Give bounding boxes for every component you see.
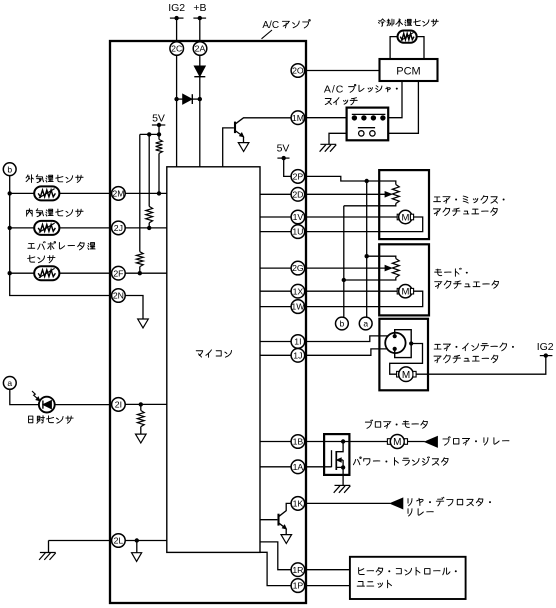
label maikon (microcomputer) xyxy=(196,351,202,357)
wire a rail (pot high side) xyxy=(366,181,368,317)
svg-text:A/C: A/C xyxy=(262,20,279,31)
resistor R2 (pull-up to 2J line) xyxy=(146,206,153,222)
label TH2 xyxy=(27,209,33,216)
ground (pressure switch) xyxy=(320,143,336,145)
pin 2D xyxy=(291,188,305,202)
wire microcomputer to Q2 base xyxy=(260,519,277,521)
microcomputer U1 box xyxy=(167,167,260,553)
pin 2O xyxy=(291,64,305,78)
transistor Q1 (NPN) base bar xyxy=(234,122,236,134)
PCM box xyxy=(380,59,438,81)
wire M4 to blower relay xyxy=(408,441,425,443)
wire 1P to heater control unit xyxy=(305,585,350,587)
wire 2G to mode pot wiper arrow xyxy=(305,267,385,269)
wire Q1 emitter down xyxy=(243,137,245,143)
pin 1J xyxy=(291,349,305,363)
ground arrow below 2L node xyxy=(132,553,142,562)
pin 2A xyxy=(193,42,207,56)
pin 1W xyxy=(291,300,305,314)
wire 2N to ground arrow xyxy=(125,296,143,320)
ground (power transistor) xyxy=(335,484,351,486)
wire D2 anode junction xyxy=(177,98,183,100)
SW1 contact bar xyxy=(352,113,386,115)
SW1 lower contacts xyxy=(359,131,364,136)
wire M3 to IG2 xyxy=(416,356,546,375)
ground arrow below Q2 emitter xyxy=(281,535,292,544)
wire microcomputer to 1P xyxy=(260,552,291,585)
net 5V (left) terminal xyxy=(152,124,165,126)
wire drain node to blower motor xyxy=(343,441,387,443)
solar sensor photodiode body xyxy=(39,397,55,413)
wire 5V to resistor R1 xyxy=(158,125,160,139)
pin 2G xyxy=(291,261,305,275)
Q3 body arrow xyxy=(338,459,343,461)
wire R2 to 2J line xyxy=(148,223,150,228)
Q3 MOSFET channel bar xyxy=(335,451,337,470)
wire 2J to microcomputer xyxy=(125,227,167,229)
svg-text:M: M xyxy=(393,437,401,448)
mode motor M2 xyxy=(305,290,397,292)
svg-text:1J: 1J xyxy=(293,350,302,360)
svg-text:1M: 1M xyxy=(292,113,304,123)
svg-text:b: b xyxy=(7,164,12,174)
Q1 emitter with arrow xyxy=(236,131,244,137)
wire 2L node down xyxy=(136,541,138,553)
wire 1K to rear defroster relay xyxy=(305,502,390,504)
wire 1M to pressure switch xyxy=(305,117,347,119)
wire microcomputer to Q1 base xyxy=(223,128,234,167)
wire D2 cathode junction xyxy=(192,98,200,100)
pin 1A xyxy=(291,460,305,474)
intake motor M3 xyxy=(397,371,400,377)
svg-text:1B: 1B xyxy=(293,437,304,447)
wire microcomputer to 1R xyxy=(260,542,291,570)
SW1 blade xyxy=(358,127,375,129)
rear defroster relay arrow xyxy=(390,498,403,509)
diode D1 (series on +B line, cathode down) xyxy=(194,66,205,76)
wire mode pot bottom to b rail xyxy=(344,278,396,281)
svg-text:IG2: IG2 xyxy=(537,341,554,353)
Q2 collector xyxy=(279,503,291,516)
wire 2P to air mix pot xyxy=(305,176,396,184)
label air mix actuator xyxy=(434,197,441,202)
wire 1B to power transistor xyxy=(305,441,343,443)
wire microcomputer to 1W xyxy=(260,306,291,308)
svg-text:2M: 2M xyxy=(112,189,124,199)
svg-text:M: M xyxy=(402,370,410,381)
wire a rail to mode pot top xyxy=(367,256,396,258)
label blower motor xyxy=(365,420,372,428)
net +B terminal xyxy=(193,17,206,19)
wire M2 to 1W xyxy=(305,291,423,306)
pin 1M xyxy=(291,111,305,125)
power transistor Q3 box xyxy=(324,434,349,475)
svg-text:A/C: A/C xyxy=(324,84,345,96)
A/C amplifier enclosure box xyxy=(110,41,306,603)
svg-text:2F: 2F xyxy=(113,268,123,278)
Q3 source lead xyxy=(336,460,343,467)
wire 1R to heater control unit xyxy=(305,569,350,571)
solar sensor light arrow xyxy=(32,391,39,400)
wire branch to resistor R3 xyxy=(139,134,141,251)
blower motor M4 xyxy=(387,439,390,445)
label heater control unit xyxy=(359,568,365,575)
node a (mid) xyxy=(359,317,372,330)
diode D2 (between 2C and 2A lines, cathode right) xyxy=(183,94,192,104)
wire microcomputer to 1B xyxy=(260,441,291,443)
wire b bus down to 2N xyxy=(10,176,112,296)
wire 5V branch rail xyxy=(140,133,159,135)
air intake actuator box xyxy=(379,319,428,391)
pin 2L xyxy=(112,534,126,548)
wire solar sensor to 2I xyxy=(55,404,112,406)
pin 2F xyxy=(112,266,126,280)
pin 1P xyxy=(291,579,305,593)
pin 2I xyxy=(112,398,126,412)
svg-text:1V: 1V xyxy=(293,212,304,222)
wire a to solar sensor xyxy=(10,389,39,404)
wire 2D to air mix pot wiper arrow xyxy=(305,193,385,195)
resistor R3 (pull-up to 2F line) xyxy=(136,252,143,267)
svg-text:2D: 2D xyxy=(292,189,303,199)
wire microcomputer to 1V xyxy=(260,216,291,218)
air mix motor M1 xyxy=(305,216,397,218)
wire Q2 emitter down xyxy=(285,529,287,535)
wire 1A to Q3 gate xyxy=(305,466,331,468)
label blower relay xyxy=(443,437,450,445)
svg-text:2C: 2C xyxy=(171,44,182,54)
pin 1R xyxy=(291,563,305,577)
pin 2C xyxy=(170,42,184,56)
Q2 emitter with arrow xyxy=(279,523,286,529)
wire microcomputer to 1I xyxy=(260,341,291,343)
wire branch to resistor R2 xyxy=(148,134,150,206)
resistor R4 (2I load) xyxy=(140,404,142,410)
intake position switch disc xyxy=(385,333,405,353)
wire microcomputer to 2G xyxy=(260,267,291,269)
wire 2A to diode D1 xyxy=(199,55,201,66)
wire microcomputer to 1X xyxy=(260,290,291,292)
Q3 drain lead xyxy=(336,442,343,452)
wire M1 to 1U xyxy=(305,217,423,232)
net 5V (right) terminal xyxy=(277,157,289,159)
A/C pressure switch SW1 box xyxy=(347,108,389,141)
label solar sensor xyxy=(29,416,33,423)
node b (left) xyxy=(3,163,16,176)
wire 2F to microcomputer xyxy=(125,272,167,274)
pin 2P xyxy=(291,170,305,184)
node a (left) xyxy=(3,377,16,390)
label A/C amp leader line xyxy=(262,30,273,39)
ground arrow below Q1 emitter xyxy=(238,143,249,152)
pin 2J xyxy=(112,221,126,235)
svg-text:2A: 2A xyxy=(195,44,206,54)
net IG2 (right) terminal xyxy=(540,355,553,357)
intake switch contact path xyxy=(395,330,412,358)
label power transistor xyxy=(353,457,361,465)
Q1 collector xyxy=(236,118,291,124)
resistor R1 (pull-up to 2M line) xyxy=(156,139,163,153)
pin 1B xyxy=(291,435,305,449)
svg-text:PCM: PCM xyxy=(396,66,420,78)
ground arrow below 2N xyxy=(138,319,149,328)
svg-text:M: M xyxy=(401,287,409,298)
svg-text:2P: 2P xyxy=(293,172,304,182)
wire b rail (pot low side) xyxy=(343,206,345,317)
coolant temp sensor body xyxy=(398,31,417,43)
svg-text:2G: 2G xyxy=(292,263,304,273)
Q3 MOSFET gate bar xyxy=(331,450,333,467)
svg-text:1K: 1K xyxy=(293,499,304,509)
svg-text:2O: 2O xyxy=(292,66,304,76)
thermistor TH2 body xyxy=(34,221,59,235)
label mode actuator xyxy=(435,269,442,276)
svg-text:2J: 2J xyxy=(114,223,123,233)
wire Q3 source to ground xyxy=(342,467,344,485)
svg-text:2L: 2L xyxy=(114,536,124,546)
svg-text:1P: 1P xyxy=(293,581,304,591)
wire 1J to intake switch xyxy=(305,349,393,355)
transistor Q2 (NPN) base bar xyxy=(277,514,279,526)
blower relay arrow xyxy=(425,437,438,448)
heater control unit box xyxy=(350,557,466,599)
thermistor TH2 leads xyxy=(10,227,35,229)
thermistor TH1 leads xyxy=(10,192,35,194)
wire SW1 to ground xyxy=(329,133,347,144)
pin 2N xyxy=(112,289,126,303)
svg-text:a: a xyxy=(7,378,12,388)
mode actuator box xyxy=(379,244,429,315)
wire 2I to microcomputer xyxy=(125,403,167,405)
thermistor TH1 body xyxy=(34,186,59,200)
label air intake actuator xyxy=(434,344,441,349)
mode pot resistor xyxy=(392,259,399,278)
ground (2L external) xyxy=(49,540,112,542)
pin 1V xyxy=(291,210,305,224)
air mix actuator box xyxy=(379,170,429,239)
svg-text:1W: 1W xyxy=(291,302,305,312)
wire intake switch to motor xyxy=(390,344,423,375)
wire 2O to PCM xyxy=(305,70,379,72)
wire IG2 to 2C xyxy=(176,18,178,42)
svg-text:5V: 5V xyxy=(152,113,165,125)
svg-text:IG2: IG2 xyxy=(168,2,185,14)
svg-text:1U: 1U xyxy=(292,227,303,237)
svg-text:5V: 5V xyxy=(277,143,290,155)
svg-text:1R: 1R xyxy=(292,565,303,575)
svg-text:1I: 1I xyxy=(294,337,301,347)
svg-text:+B: +B xyxy=(193,2,206,14)
label rear defroster relay xyxy=(408,499,412,506)
net IG2 terminal xyxy=(170,17,184,19)
thermistor TH3 leads xyxy=(10,272,35,274)
wire D1 to microcomputer xyxy=(199,77,201,167)
wire microcomputer to 1U xyxy=(260,231,291,233)
wire air mix pot bottom to b rail xyxy=(344,204,396,206)
pin 1X xyxy=(291,284,305,298)
wire 5V to 2P xyxy=(284,158,291,176)
pin 1I xyxy=(291,335,305,349)
air mix pot resistor xyxy=(392,185,399,204)
pin 2M xyxy=(112,187,126,201)
svg-text:2I: 2I xyxy=(115,400,122,410)
wire PCM to pressure switch top xyxy=(388,81,402,118)
pin 1U xyxy=(291,225,305,239)
wire 2L to microcomputer xyxy=(125,540,167,542)
svg-text:b: b xyxy=(340,319,345,329)
wire microcomputer to 1A xyxy=(260,466,291,468)
ground arrow below R4 xyxy=(136,434,147,443)
pin 1K xyxy=(291,497,305,511)
wire R3 to 2F line xyxy=(139,267,141,274)
thermistor TH3 body xyxy=(34,266,59,280)
wire PCM to pressure switch bottom xyxy=(388,81,418,133)
node b (mid) xyxy=(336,317,349,330)
label coolant temp sensor xyxy=(379,19,386,26)
wire 2C down to microcomputer xyxy=(176,55,178,167)
wire 2M to microcomputer xyxy=(125,192,167,194)
svg-text:M: M xyxy=(401,212,409,223)
svg-text:a: a xyxy=(363,319,368,329)
svg-text:2N: 2N xyxy=(113,291,124,301)
wire microcomputer to 2D xyxy=(260,193,291,195)
svg-text:1X: 1X xyxy=(293,286,304,296)
label TH1 xyxy=(26,175,33,183)
label TH3 xyxy=(28,244,35,249)
svg-text:1A: 1A xyxy=(293,462,304,472)
coolant temp sensor leads xyxy=(390,37,397,59)
wire microcomputer to 1J xyxy=(260,354,291,356)
wire +B to 2A xyxy=(199,18,201,42)
wire 1I to intake switch xyxy=(305,336,393,342)
wire R1 to 2M line xyxy=(158,153,160,193)
